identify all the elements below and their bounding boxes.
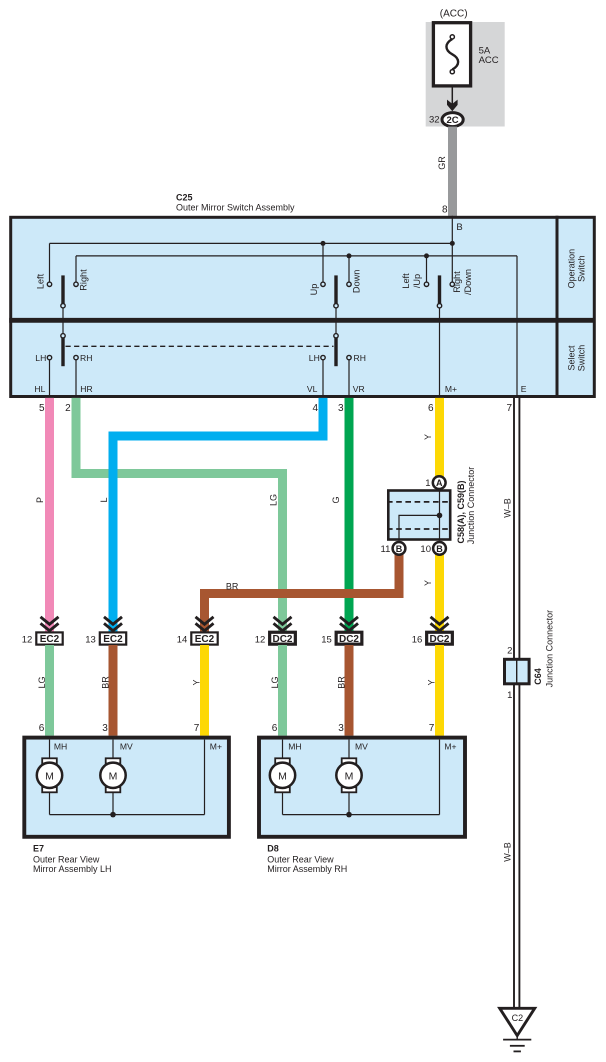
svg-text:MV: MV (120, 742, 133, 752)
wire Left contact drop (49, 243, 51, 282)
svg-text:Junction Connector: Junction Connector (466, 467, 476, 545)
svg-text:M: M (345, 770, 354, 782)
contact Left (47, 282, 51, 286)
svg-text:C25: C25 (176, 193, 193, 203)
svg-text:EC2: EC2 (103, 634, 123, 645)
wire Up contact drop (322, 243, 324, 282)
C64 junction connector box (505, 659, 530, 684)
svg-text:Mirror Assembly RH: Mirror Assembly RH (267, 864, 347, 874)
connector 16 DC2 (427, 632, 453, 644)
wire LG pin2 HR to 12 DC2 (76, 398, 283, 632)
svg-text:15: 15 (321, 634, 332, 645)
svg-text:14: 14 (177, 634, 188, 645)
terminal A (433, 476, 446, 489)
svg-text:Up: Up (309, 284, 319, 296)
wire VR pin drop (348, 360, 350, 398)
fuse block shading (426, 22, 505, 127)
E7 bus (50, 814, 205, 816)
svg-text:Down: Down (352, 270, 362, 294)
D8 motor MV terminals (342, 758, 357, 763)
connector 12 DC2 (270, 632, 296, 644)
connector 16 DC2 arrow (431, 617, 449, 631)
connector 13 EC2 (100, 632, 126, 644)
svg-text:M: M (278, 770, 287, 782)
svg-text:Left: Left (36, 273, 46, 289)
wire BR to E7 pin3 (109, 645, 118, 736)
connector 15 DC2 arrow (340, 617, 358, 631)
svg-text:BR: BR (336, 676, 346, 689)
D8 MV to bus (348, 792, 350, 814)
wire LG to E7 pin6 (45, 645, 54, 736)
junction node dots (321, 241, 326, 246)
contact Left/Up (424, 282, 428, 286)
contact RH (V) (347, 355, 351, 359)
arrow into 2C (447, 100, 458, 112)
svg-text:B: B (396, 544, 403, 554)
svg-text:(ACC): (ACC) (440, 8, 468, 19)
svg-text:M: M (109, 770, 118, 782)
svg-text:M+: M+ (445, 384, 457, 394)
svg-text:Y: Y (423, 580, 433, 586)
svg-text:E7: E7 (33, 844, 44, 854)
svg-text:E: E (521, 384, 527, 394)
svg-text:DC2: DC2 (339, 634, 359, 645)
terminal B pin 11 (393, 542, 406, 555)
svg-text:12: 12 (22, 634, 33, 645)
svg-text:LH: LH (35, 353, 46, 363)
fuse box (433, 23, 470, 86)
svg-text:P: P (35, 497, 45, 503)
ground C2 triangle (500, 1008, 535, 1035)
svg-text:DC2: DC2 (429, 634, 449, 645)
wire W-B double line (513, 398, 515, 658)
operation pole bar M+ (438, 275, 441, 303)
svg-text:MH: MH (288, 742, 301, 752)
contact RH (H) (74, 355, 78, 359)
svg-text:Outer Rear View: Outer Rear View (267, 855, 334, 865)
wire pole to M+ pin (439, 308, 441, 398)
svg-text:MH: MH (54, 742, 67, 752)
contact Right (74, 282, 78, 286)
E7 motor MH (37, 763, 62, 788)
svg-text:C64: C64 (533, 668, 543, 685)
svg-text:/Up: /Up (412, 274, 422, 288)
svg-text:M: M (45, 770, 54, 782)
svg-text:ACC: ACC (479, 55, 499, 66)
svg-text:BR: BR (100, 676, 110, 689)
ground tail (516, 1036, 518, 1040)
wire LG to D8 pin6 (278, 645, 287, 736)
D8 motor MH terminals (275, 758, 290, 763)
mechanical link dashed (66, 345, 334, 347)
svg-text:DC2: DC2 (272, 634, 292, 645)
wire B vertical from pin 8 (451, 216, 453, 282)
svg-text:B: B (436, 544, 443, 554)
D8 bus (283, 814, 440, 816)
E7 motor MV terminals (106, 758, 121, 763)
D8 MH to bus (282, 792, 284, 814)
svg-text:Y: Y (192, 679, 202, 685)
svg-text:Switch: Switch (577, 255, 587, 282)
internal junction dot (437, 513, 443, 519)
connector 2C oval (442, 113, 463, 127)
svg-text:LG: LG (270, 676, 280, 688)
svg-text:Select: Select (567, 345, 577, 371)
E7 bus junction dot (110, 812, 116, 818)
svg-text:Right: Right (79, 269, 89, 291)
svg-text:7: 7 (429, 723, 435, 734)
svg-text:Mirror Assembly LH: Mirror Assembly LH (33, 864, 112, 874)
svg-text:4: 4 (313, 403, 319, 414)
svg-text:Right: Right (452, 271, 462, 293)
D8 Outer Rear View Mirror Assembly RH box (259, 738, 465, 837)
svg-text:6: 6 (428, 403, 434, 414)
wire Right contact drop (75, 256, 77, 282)
C25 Outer Mirror Switch Assembly box (11, 217, 595, 396)
svg-text:8: 8 (442, 204, 448, 215)
svg-text:C2: C2 (512, 1013, 524, 1023)
contact Up (321, 282, 325, 286)
wire Left/Up contact drop (426, 256, 428, 282)
internal wire to B11 (399, 515, 440, 540)
junction connector C58(A) C59(B) box (388, 491, 450, 540)
svg-text:7: 7 (506, 403, 512, 414)
svg-text:Outer Rear View: Outer Rear View (33, 855, 100, 865)
svg-text:D8: D8 (267, 844, 279, 854)
select pole V (334, 334, 338, 338)
svg-text:EC2: EC2 (40, 634, 60, 645)
ground hatch (503, 1039, 531, 1041)
svg-text:Operation: Operation (567, 249, 577, 289)
wire E drop to pin 7 (516, 256, 518, 398)
svg-text:12: 12 (255, 634, 266, 645)
svg-text:2: 2 (507, 646, 512, 657)
connector 13 EC2 arrow (104, 617, 122, 631)
svg-text:5: 5 (39, 403, 45, 414)
svg-text:/Down: /Down (463, 269, 473, 295)
E7 Outer Rear View Mirror Assembly LH box (24, 738, 229, 837)
svg-text:BR: BR (226, 581, 239, 591)
D8 bus junction dot (346, 812, 352, 818)
svg-text:6: 6 (39, 723, 45, 734)
svg-text:VL: VL (307, 384, 318, 394)
wire L blue VL to 13 EC2 (113, 398, 323, 632)
svg-text:HL: HL (34, 384, 45, 394)
contact Down (347, 282, 351, 286)
svg-text:HR: HR (80, 384, 92, 394)
svg-text:VR: VR (353, 384, 365, 394)
svg-text:11: 11 (381, 544, 391, 555)
svg-text:3: 3 (338, 723, 344, 734)
svg-text:1: 1 (507, 690, 512, 701)
wire G green VR to 15 DC2 (345, 398, 354, 632)
svg-text:1: 1 (425, 478, 430, 489)
D8 M+ lead (439, 740, 441, 815)
svg-text:W–B: W–B (502, 842, 512, 862)
svg-text:LH: LH (309, 353, 320, 363)
E7 M+ lead (204, 740, 206, 815)
svg-text:EC2: EC2 (195, 634, 215, 645)
svg-text:LG: LG (37, 676, 47, 688)
svg-text:M+: M+ (210, 742, 222, 752)
svg-text:Outer Mirror Switch Assembly: Outer Mirror Switch Assembly (176, 203, 295, 213)
contact LH (V) (321, 355, 325, 359)
svg-text:32: 32 (429, 115, 440, 126)
svg-text:10: 10 (420, 544, 431, 555)
svg-text:LG: LG (269, 494, 279, 506)
wire Y to D8 pin7 (435, 645, 444, 736)
connector 12 EC2 (36, 632, 62, 644)
svg-text:W–B: W–B (502, 498, 512, 518)
wire BR to D8 pin3 (345, 645, 354, 736)
operation pole bar H (61, 275, 64, 303)
svg-text:B: B (456, 222, 462, 233)
wire GR gray (448, 127, 457, 216)
wire BR brown junction B11 to 14 EC2 (205, 555, 400, 632)
E7 MH to bus (49, 792, 51, 814)
wire P pink HL to 12 EC2 (45, 398, 54, 632)
D8 MH lead (282, 740, 284, 759)
svg-text:L: L (99, 497, 109, 502)
dashed internal rows (387, 501, 451, 503)
svg-text:G: G (331, 496, 341, 503)
connector 14 EC2 arrow (196, 617, 214, 631)
E7 MV lead (112, 740, 114, 759)
D8 motor MV (336, 763, 361, 788)
section divider (9, 318, 595, 323)
wire Y yellow M+ to junction A (435, 398, 444, 477)
E7 MH lead (49, 740, 51, 759)
svg-text:13: 13 (85, 634, 96, 645)
E7 motor MV (100, 763, 125, 788)
wire E bus horizontal (76, 255, 517, 257)
svg-text:RH: RH (354, 353, 366, 363)
internal wire A to B10 (439, 489, 441, 541)
contact LH (H) (47, 355, 51, 359)
wire VL pin drop (322, 360, 324, 398)
select pole H (61, 334, 65, 338)
E7 MV to bus (112, 792, 114, 814)
D8 MV lead (348, 740, 350, 759)
contact Right/Down (450, 282, 454, 286)
svg-text:2: 2 (65, 403, 71, 414)
wire B bus horizontal (50, 242, 453, 244)
wire Down contact drop (348, 256, 350, 282)
fuse F1 5A ACC symbol (446, 39, 458, 70)
svg-text:A: A (436, 478, 443, 488)
svg-text:Y: Y (423, 434, 433, 440)
svg-text:GR: GR (437, 156, 447, 170)
terminal B pin 10 (433, 542, 446, 555)
svg-text:3: 3 (102, 723, 108, 734)
wire HR pin drop (75, 360, 77, 398)
svg-text:M+: M+ (444, 742, 456, 752)
svg-text:C58(A), C59(B): C58(A), C59(B) (456, 480, 466, 543)
wire Y yellow junction B to 16 DC2 (435, 555, 444, 632)
svg-text:16: 16 (412, 634, 423, 645)
svg-text:MV: MV (355, 742, 368, 752)
right label column divider (556, 216, 559, 398)
svg-text:Junction Connector: Junction Connector (545, 610, 555, 688)
connector 12 DC2 arrow (274, 617, 292, 631)
connector 12 EC2 arrow (41, 617, 59, 631)
operation pole bar V (334, 275, 337, 303)
svg-text:Y: Y (427, 679, 437, 685)
connector 15 DC2 (336, 632, 362, 644)
svg-text:6: 6 (272, 723, 278, 734)
E7 motor MH terminals (42, 758, 57, 763)
svg-text:Left: Left (401, 273, 411, 289)
wire Y to E7 pin7 (200, 645, 209, 736)
wire HL pin drop (49, 360, 51, 398)
wire fuse to connector 2C (451, 88, 453, 105)
svg-text:Switch: Switch (577, 345, 587, 372)
svg-text:3: 3 (338, 403, 344, 414)
svg-text:RH: RH (80, 353, 92, 363)
D8 motor MH (270, 763, 295, 788)
connector 14 EC2 (191, 632, 217, 644)
svg-text:2C: 2C (447, 115, 459, 126)
svg-text:7: 7 (194, 723, 200, 734)
